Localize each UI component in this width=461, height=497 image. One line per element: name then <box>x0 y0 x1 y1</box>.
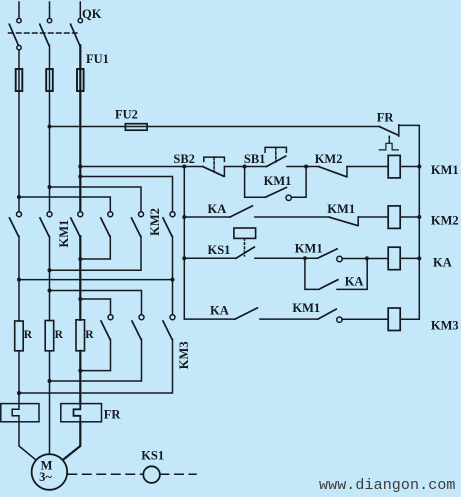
svg-text:www.diangon.com: www.diangon.com <box>319 477 456 494</box>
svg-text:FR: FR <box>104 407 122 421</box>
svg-text:KM3: KM3 <box>431 319 459 333</box>
svg-text:KM3: KM3 <box>177 341 191 369</box>
svg-text:KA: KA <box>433 255 452 269</box>
svg-text:SB2: SB2 <box>173 152 195 166</box>
svg-text:R: R <box>55 329 64 341</box>
svg-text:KM1: KM1 <box>295 242 323 256</box>
svg-text:KM1: KM1 <box>264 174 292 188</box>
svg-text:KA: KA <box>210 303 229 317</box>
svg-text:KM1: KM1 <box>292 301 320 315</box>
svg-text:FR: FR <box>377 111 395 125</box>
svg-text:KM2: KM2 <box>431 214 459 228</box>
svg-text:QK: QK <box>82 7 102 21</box>
svg-text:KS1: KS1 <box>208 243 231 257</box>
svg-text:3~: 3~ <box>39 470 52 484</box>
svg-text:KA: KA <box>345 274 364 288</box>
svg-text:KA: KA <box>208 202 227 216</box>
svg-text:SB1: SB1 <box>244 152 266 166</box>
svg-text:KM2: KM2 <box>315 152 343 166</box>
svg-text:KS1: KS1 <box>141 448 164 462</box>
svg-text:FU2: FU2 <box>115 108 138 122</box>
svg-text:KM2: KM2 <box>148 208 162 236</box>
svg-text:KM1: KM1 <box>327 202 355 216</box>
svg-text:R: R <box>24 329 33 341</box>
svg-text:KM1: KM1 <box>57 220 71 248</box>
svg-text:R: R <box>85 329 94 341</box>
svg-text:KM1: KM1 <box>431 163 459 177</box>
svg-text:FU1: FU1 <box>86 52 109 66</box>
